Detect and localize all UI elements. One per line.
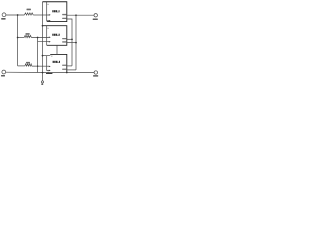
pin label U2 out+: [62, 38, 66, 39]
resistor R1: [24, 13, 33, 15]
wire U2 lower pin feed: [38, 38, 49, 42]
pin arrow U1 in+: [49, 14, 51, 16]
label SCM_3: [53, 61, 60, 63]
wire U2 out+ stub: [67, 38, 72, 40]
resistor R3: [25, 64, 32, 66]
label R2: [26, 33, 30, 35]
wire rail to R2: [18, 37, 25, 39]
node: U2 lower feed junction: [37, 37, 39, 39]
node: R3 wire crossing junction: [37, 65, 39, 67]
pin label U3 out+: [62, 65, 66, 66]
wire loop U3 lower pin: [47, 56, 49, 71]
label ground 0: [41, 84, 43, 86]
label terminal T3: [93, 19, 98, 21]
pin label U1 out+: [62, 14, 66, 15]
terminal T2 (bottom-left): [2, 70, 6, 74]
node: out bus72 junction: [71, 38, 73, 40]
node: chain-bus junction: [42, 72, 44, 74]
text labels: [1, 9, 98, 85]
wire U3 out- stub: [67, 69, 76, 71]
resistor R2: [24, 35, 31, 37]
node: chain-U3 stub junction: [42, 55, 44, 57]
label SCM_2: [52, 34, 59, 36]
wire U2 out- stub: [67, 42, 76, 44]
node: rail R2 junction: [17, 37, 19, 39]
ground marker bar: [46, 73, 52, 74]
wire U3 out+ stub: [67, 65, 72, 67]
pin label U2 out-: [62, 41, 66, 42]
wire ground stem: [42, 73, 44, 81]
node: chain-U2 top junction: [42, 25, 44, 27]
wire R3 to U3 input: [32, 65, 49, 67]
label R1: [27, 9, 31, 11]
wire left vertical rail: [17, 15, 19, 66]
node: out bus76 junction mid: [75, 42, 77, 44]
pin mark U1 aux: [47, 3, 49, 6]
wire series link U2-U3: [56, 45, 58, 54]
ground node ring: [41, 81, 43, 83]
label terminal T2: [1, 75, 5, 77]
wire bus76 vertical: [75, 15, 77, 70]
wire rail corner to R3: [18, 65, 25, 67]
terminal T3 (top-right output): [94, 14, 97, 17]
label R3: [26, 62, 30, 64]
label SCM_1: [52, 10, 59, 12]
pin arrow U2 in-: [49, 41, 51, 43]
wire loop U1 lower pin: [47, 2, 49, 21]
wire U1 out+ to T3: [67, 14, 94, 16]
pin label U3 out-: [62, 69, 66, 70]
wire chain vertical x=42.5: [42, 2, 44, 73]
subcircuit block U1 SCM_1 (top+right+bottom edges): [43, 2, 67, 22]
pin arrow U3 in-: [49, 70, 51, 72]
pin label U1 out-: [62, 18, 66, 19]
subcircuit block U2 SCM_2: [43, 26, 67, 46]
pin mark U2 aux: [47, 27, 49, 30]
node: T1 rail junction: [17, 14, 19, 16]
node: bus block corner junction: [66, 72, 68, 74]
pin arrow U2 in+: [49, 37, 51, 39]
node: out bus76 junction top: [75, 14, 77, 16]
terminal T1 (top-left input): [2, 13, 6, 17]
input pin arrows: [46, 4, 53, 74]
pin arrow U3 in+: [49, 66, 51, 68]
wire loop U2 lower rail: [46, 26, 48, 46]
terminal T4 (bottom-right): [94, 71, 97, 74]
wire T1 to R1: [6, 14, 25, 16]
wire U1 out- to bus72: [67, 19, 72, 66]
wire stub into U3 upper area: [43, 55, 51, 57]
ground marker cap: [47, 72, 49, 73]
wire R1 to U1 input: [33, 14, 49, 16]
label terminal T1: [1, 18, 5, 20]
pin mark U3 aux: [51, 55, 53, 58]
subcircuit block U3 SCM_3: [50, 54, 67, 72]
pin arrow U1 in-: [49, 20, 51, 22]
wire R2 to U2 input: [31, 36, 49, 38]
junction dots: [17, 14, 77, 73]
wire vertical x=37.6 down to bus: [37, 42, 39, 73]
label terminal T4: [93, 75, 98, 77]
wire bottom bus: [6, 71, 44, 73]
